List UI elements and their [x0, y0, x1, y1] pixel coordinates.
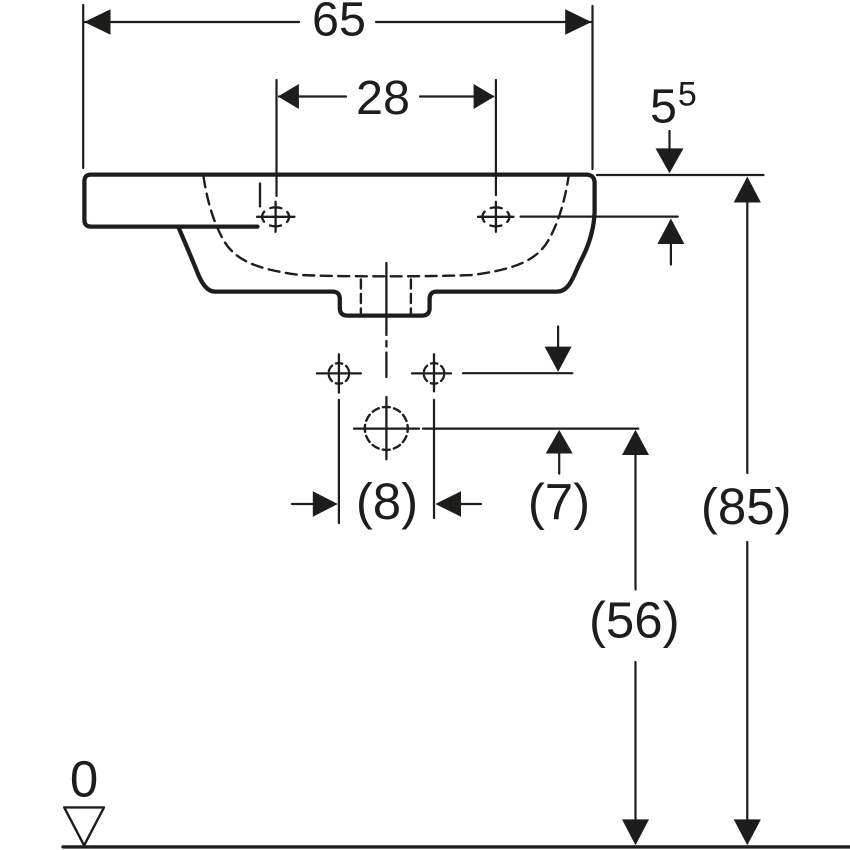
svg-text:(8): (8): [356, 473, 418, 530]
svg-text:5: 5: [678, 76, 697, 114]
svg-text:0: 0: [70, 750, 98, 807]
svg-text:5: 5: [650, 80, 677, 134]
svg-text:65: 65: [312, 0, 366, 47]
svg-text:28: 28: [356, 71, 410, 125]
svg-text:(7): (7): [528, 474, 590, 531]
svg-text:(85): (85): [701, 478, 792, 535]
svg-text:(56): (56): [589, 592, 680, 649]
